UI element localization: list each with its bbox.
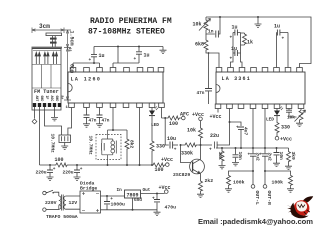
node base — [180, 144, 182, 146]
IC2 bottom pin 3 — [238, 104, 244, 109]
ground C23 — [273, 163, 280, 166]
IC1 bottom pin 7 — [149, 103, 155, 108]
IC1 notch — [68, 84, 72, 92]
ground Q1 emitter — [197, 194, 204, 197]
svg-text:47n: 47n — [89, 119, 97, 124]
svg-text:220u: 220u — [63, 170, 74, 176]
svg-text:1k: 1k — [247, 40, 253, 46]
IC2 LA3361 body — [216, 72, 305, 104]
wire IC1 pin5 to detector — [108, 108, 128, 131]
ground C6 — [74, 177, 81, 180]
tuner pin 1 — [33, 103, 36, 107]
IC2 top pin 9 — [297, 68, 303, 73]
potentiometer VR1 10k — [205, 17, 207, 19]
OUT-R terminal — [263, 185, 267, 189]
ground C5 — [47, 177, 54, 180]
tuner pin 5 — [53, 103, 56, 107]
svg-text:47n: 47n — [197, 91, 205, 96]
node rail mid — [117, 46, 119, 48]
node rail C23 — [276, 147, 278, 149]
svg-text:470u: 470u — [165, 204, 177, 210]
capacitor C5 220u — [49, 165, 51, 177]
svg-text:+Vcc: +Vcc — [192, 112, 204, 118]
svg-text:12V: 12V — [69, 200, 78, 206]
capacitor C7 10u — [170, 142, 173, 149]
wire to C19 — [230, 122, 242, 126]
svg-text:GND: GND — [55, 96, 59, 102]
transformer T2 secondary — [64, 196, 66, 209]
svg-text:330k: 330k — [181, 151, 193, 157]
wire IC1 pin8 AFC — [162, 108, 182, 119]
tuner pin 2 — [38, 103, 41, 107]
detector capacitor — [102, 143, 105, 151]
svg-text:1u: 1u — [232, 25, 238, 31]
svg-text:+: + — [248, 153, 251, 158]
wire IC2 pin5 out R — [264, 109, 266, 154]
svg-text:ANT: ANT — [35, 96, 39, 102]
capacitor C24 10n (pin7) — [289, 109, 297, 118]
svg-text:220V: 220V — [45, 200, 57, 206]
node rail detector — [107, 164, 109, 166]
IC2 top pin 10 — [285, 68, 291, 73]
antenna input terminal (diamond) — [32, 119, 37, 124]
svg-text:3k9: 3k9 — [290, 152, 296, 161]
de-emphasis rail — [216, 147, 289, 149]
antenna feed wires — [53, 36, 56, 47]
svg-text:220u: 220u — [36, 170, 47, 176]
svg-text:10n: 10n — [237, 152, 243, 161]
capacitor C10 470u — [156, 194, 158, 213]
node out R — [264, 170, 266, 172]
capacitor C8 22u — [201, 109, 230, 149]
ground R13 — [287, 189, 294, 192]
antenna stack plates — [50, 38, 57, 40]
resistor R4 100 (to Vcc) — [152, 163, 165, 167]
capacitor C18 1u (pins right) — [277, 33, 289, 68]
svg-text:10.7MHz: 10.7MHz — [50, 134, 56, 154]
svg-text:22u: 22u — [210, 133, 219, 139]
+Vcc terminal LED — [275, 136, 279, 140]
IC1 top pin 9 — [158, 68, 164, 73]
detector internal wires — [102, 130, 113, 165]
svg-text:+Vcc: +Vcc — [210, 114, 222, 120]
tuner trimmer capacitor 3 — [52, 52, 57, 64]
svg-text:Email :padedismk4@yahoo.com: Email :padedismk4@yahoo.com — [198, 217, 313, 226]
svg-text:87-108MHz STEREO: 87-108MHz STEREO — [88, 28, 165, 37]
capacitor C21 2u2 — [250, 154, 256, 156]
IC1 top pin 14 — [97, 68, 103, 73]
IC1 bottom pin 5 — [123, 103, 129, 108]
node rail C19 — [240, 147, 242, 149]
IC2 bottom pin 8 — [298, 104, 304, 109]
wire tuner pin2 down to supply rail — [39, 107, 41, 165]
svg-text:1000u: 1000u — [111, 201, 126, 207]
svg-text:2u2: 2u2 — [267, 153, 273, 162]
resistor R5 100 (AFC) — [167, 116, 180, 120]
ground top rail — [257, 17, 259, 24]
wire tuner pin5 to ground — [54, 107, 56, 117]
resistor R12 100k — [229, 171, 254, 189]
quad detector dashed box — [96, 135, 121, 160]
capacitor C23 10n — [276, 148, 278, 163]
svg-text:RADIO PENERIMA FM: RADIO PENERIMA FM — [90, 17, 172, 26]
svg-text:LED: LED — [266, 118, 274, 123]
svg-text:+: + — [260, 153, 263, 158]
ground R12 — [225, 189, 232, 192]
resistor R14 3k9 — [288, 148, 290, 166]
capacitor C22 2u2 — [262, 154, 268, 156]
svg-text:100: 100 — [55, 157, 64, 163]
IC2 top rail — [206, 17, 311, 68]
svg-text:10.7MHz: 10.7MHz — [88, 136, 94, 156]
LED D1 — [151, 108, 153, 111]
transistor Q1 2SC829 — [190, 145, 205, 180]
IC2 bottom pin 1 — [215, 104, 221, 109]
svg-text:1.5cm: 1.5cm — [69, 31, 75, 46]
transformer core — [62, 195, 64, 211]
U3 ground leg — [132, 198, 134, 210]
IC1 bottom pin 1 — [69, 103, 75, 108]
ground R11 — [219, 166, 226, 169]
svg-text:AFC: AFC — [180, 112, 189, 118]
IC2 top pin 15 — [228, 68, 234, 73]
svg-text:+: + — [230, 57, 233, 62]
svg-text:10u: 10u — [167, 136, 176, 142]
node rail R1 — [126, 164, 128, 166]
regulator U3 7809 — [125, 190, 141, 198]
svg-text:8k2: 8k2 — [128, 140, 134, 149]
capacitor C17 1u — [233, 52, 241, 54]
resistor R2 330 — [151, 116, 153, 165]
resistor R3 100 (rail) — [55, 163, 68, 167]
ground VR2 — [296, 123, 303, 126]
bridge rectifier — [80, 191, 101, 213]
svg-text:10k: 10k — [217, 152, 223, 161]
tuner internal sections — [32, 65, 61, 89]
antenna element — [46, 33, 62, 36]
node rail C20 — [235, 147, 237, 149]
bridge DC out top — [101, 195, 125, 197]
svg-text:Gnd: Gnd — [134, 198, 142, 203]
svg-text:+: + — [80, 167, 83, 172]
IC2 top pin 14 — [239, 68, 245, 73]
IC2 top pin 16 — [216, 68, 222, 73]
wire rail to IC1 pin4 — [113, 47, 139, 68]
node out L — [252, 170, 254, 172]
node detector — [112, 129, 114, 131]
FM tuner box — [32, 49, 61, 110]
svg-text:10k: 10k — [193, 22, 202, 28]
node collector — [200, 144, 202, 146]
svg-text:2SC829: 2SC829 — [173, 172, 190, 178]
wire filter out to IC1 pin1 — [68, 108, 72, 136]
IC1 bottom pin 3 — [97, 103, 103, 108]
IC1 top supply rail — [94, 47, 163, 51]
capacitor C2 1u — [138, 47, 140, 64]
FM tuner top bar — [32, 47, 63, 49]
IC2 bottom pin 6 — [274, 104, 280, 109]
IC1 top pin 11 — [137, 68, 143, 73]
resistor R6 330k — [184, 143, 197, 147]
svg-text:LA 3361: LA 3361 — [222, 76, 251, 82]
capacitor C4 47n (IC1 pin3) — [99, 108, 101, 124]
IC2 top pin 11 — [274, 68, 280, 73]
ground R14 — [285, 166, 292, 169]
+Vcc terminal (rail) — [166, 163, 170, 167]
mascot logo — [287, 196, 314, 218]
+Vcc terminal (collector) — [199, 117, 203, 121]
node rail C2 — [138, 46, 140, 48]
svg-text:+: + — [53, 167, 56, 172]
transformer T2 primary — [59, 196, 61, 210]
svg-text:1u: 1u — [144, 53, 150, 59]
capacitor C6 220u — [76, 165, 78, 177]
IC1 bottom pin 2 — [84, 103, 90, 108]
svg-text:10n: 10n — [278, 152, 284, 161]
IC2 top pin 13 — [251, 68, 257, 73]
svg-text:100k: 100k — [233, 180, 245, 186]
svg-text:1u: 1u — [231, 46, 237, 52]
svg-text:+Vcc: +Vcc — [159, 185, 171, 191]
ground C3 — [83, 124, 90, 127]
capacitor C16 1u (pins 2-3) — [231, 33, 243, 68]
wires secondary to bridge — [66, 196, 80, 209]
svg-text:1u: 1u — [99, 53, 105, 59]
IC1 LA1260 body — [68, 72, 163, 103]
ground tuner pin5 — [51, 118, 58, 121]
capacitor C1 1u — [73, 47, 100, 68]
node rail C14 — [219, 16, 221, 18]
svg-text:100: 100 — [169, 121, 178, 127]
LED D2 — [276, 109, 278, 111]
IC2 notch — [216, 85, 220, 93]
IC2 bottom pin 7 — [286, 104, 292, 109]
svg-text:IF: IF — [45, 96, 49, 100]
resistor R10 1k — [241, 33, 245, 45]
OUT-L terminal — [251, 185, 255, 189]
ground ceramic filter — [61, 146, 68, 149]
IC2 pin1 +Vcc stub — [217, 109, 219, 113]
svg-text:16: 16 — [67, 48, 71, 52]
resistor R1 8k2 — [126, 130, 128, 165]
potentiometer VR2 10k — [300, 109, 302, 111]
wire tuner pin3 to ceramic filter — [45, 107, 62, 135]
svg-text:6k8: 6k8 — [195, 42, 204, 48]
resistor R13 100k — [265, 171, 291, 189]
svg-text:OUT-L: OUT-L — [254, 191, 260, 206]
power switch and AC input top — [43, 191, 46, 194]
svg-text:LA 1260: LA 1260 — [71, 77, 102, 83]
IC1 bottom pin 8 — [159, 103, 165, 108]
wire IC2 pin4 out L — [252, 109, 254, 154]
node rail R11 — [221, 147, 223, 149]
IC2 bottom pin 2 — [227, 104, 233, 109]
svg-text:+: + — [110, 197, 113, 202]
IC1 bottom pin 4 — [110, 103, 116, 108]
svg-text:47n: 47n — [102, 119, 110, 124]
svg-text:10k: 10k — [287, 116, 295, 121]
svg-text:Out: Out — [143, 188, 151, 193]
IC2 bottom pin 4 — [250, 104, 256, 109]
AFC terminal — [182, 116, 186, 120]
wire audio to C7 — [165, 118, 169, 145]
svg-text:AGC: AGC — [50, 96, 54, 102]
ground rail end — [160, 50, 167, 53]
IC1 bottom pin 6 — [137, 103, 143, 108]
svg-text:100k: 100k — [272, 180, 284, 186]
supply rail bottom — [40, 164, 153, 166]
svg-text:FM Tuner: FM Tuner — [34, 89, 59, 95]
vertical dimension line — [64, 30, 71, 100]
U3 output wire — [141, 193, 165, 195]
IC1 top pin 16 — [70, 68, 76, 73]
resistor R9 6k8 — [204, 39, 208, 51]
svg-text:3cm: 3cm — [39, 23, 50, 30]
tuner pin 6 — [58, 103, 61, 107]
+Vcc terminal (psu) — [165, 190, 169, 194]
svg-text:+: + — [282, 37, 285, 42]
tuner trimmer capacitor 2 — [44, 52, 49, 64]
svg-text:100: 100 — [155, 167, 164, 173]
IC1 top pin 10 — [148, 68, 154, 73]
capacitor C15 47n — [208, 53, 210, 104]
detector coil T1 — [111, 141, 116, 154]
AC input bottom — [43, 208, 46, 211]
wire AC top to transformer — [56, 192, 59, 196]
wire tuner pin1 to terminal — [34, 107, 36, 119]
svg-text:+: + — [174, 148, 177, 153]
IC1 top pin 15 — [84, 68, 90, 73]
tuner pin 3 — [43, 103, 46, 107]
ground psu — [154, 212, 161, 215]
node rail ground — [257, 16, 259, 18]
svg-text:+Vcc: +Vcc — [280, 137, 292, 143]
svg-text:+Vcc: +Vcc — [161, 157, 173, 163]
svg-text:1n: 1n — [208, 29, 214, 35]
resistor R15 330 — [276, 116, 278, 137]
wire IC1 pin7 to rail — [139, 108, 141, 166]
IC2 bottom pin 5 — [262, 104, 268, 109]
svg-text:+: + — [134, 57, 137, 62]
tuner pin 4 — [48, 103, 51, 107]
node C9 top — [106, 195, 108, 197]
resistor R11 10k — [220, 150, 224, 162]
svg-text:In: In — [117, 188, 123, 193]
tuner section divider line — [33, 50, 61, 52]
svg-text:+: + — [89, 58, 92, 63]
capacitor C14 1n — [206, 17, 220, 34]
svg-text:B+: B+ — [60, 96, 64, 100]
ceramic filter CF1 10.7MHz — [59, 135, 71, 146]
svg-text:GND: GND — [40, 96, 44, 102]
resistor R8 2k2 (emitter) — [199, 180, 203, 192]
node audio line IC2 — [229, 121, 231, 123]
wire base — [181, 145, 191, 163]
svg-text:330: 330 — [281, 125, 290, 131]
bridge DC out bottom — [101, 209, 158, 211]
svg-text:+: + — [230, 36, 233, 41]
resistor R7 10k (collector) — [200, 121, 202, 145]
node rail C6 — [76, 164, 78, 166]
ground C20 — [232, 163, 239, 166]
capacitor C3 47n (IC1 pin2) — [86, 108, 88, 124]
svg-text:2k2: 2k2 — [205, 178, 214, 184]
IC2 top pin 12 — [262, 68, 268, 73]
tuner trimmer capacitor 1 — [35, 52, 40, 64]
svg-text:10k: 10k — [187, 128, 196, 134]
svg-text:+: + — [209, 148, 212, 153]
IC1 top pin 12 — [124, 68, 130, 73]
svg-text:+: + — [152, 197, 155, 202]
node C10 — [156, 193, 158, 195]
capacitor C20 10n — [235, 148, 237, 162]
svg-text:+: + — [236, 126, 239, 131]
node audio takeoff — [164, 117, 166, 119]
node rail C5 — [49, 164, 51, 166]
capacitor C19 4u7 — [238, 127, 244, 129]
antenna dimension 3cm — [32, 28, 64, 34]
svg-text:330: 330 — [156, 143, 165, 149]
IC1 top pin 13 — [110, 68, 116, 73]
svg-text:4u7: 4u7 — [243, 127, 249, 136]
ground C4 — [96, 124, 103, 127]
svg-text:OUT-R: OUT-R — [266, 191, 272, 206]
svg-text:1u: 1u — [274, 24, 280, 30]
capacitor C9 1000u — [106, 196, 108, 210]
svg-text:TRAFO 500mA: TRAFO 500mA — [46, 214, 78, 220]
